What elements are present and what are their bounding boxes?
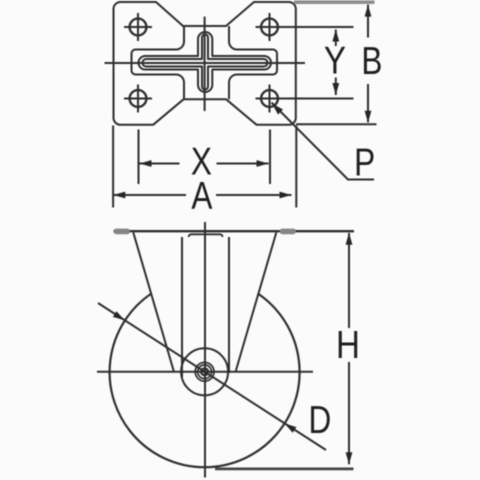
svg-text:D: D <box>309 399 332 442</box>
svg-text:P: P <box>354 142 375 185</box>
svg-text:Y: Y <box>324 39 346 82</box>
svg-text:B: B <box>361 40 382 83</box>
svg-text:H: H <box>336 324 360 367</box>
svg-text:A: A <box>191 175 213 218</box>
